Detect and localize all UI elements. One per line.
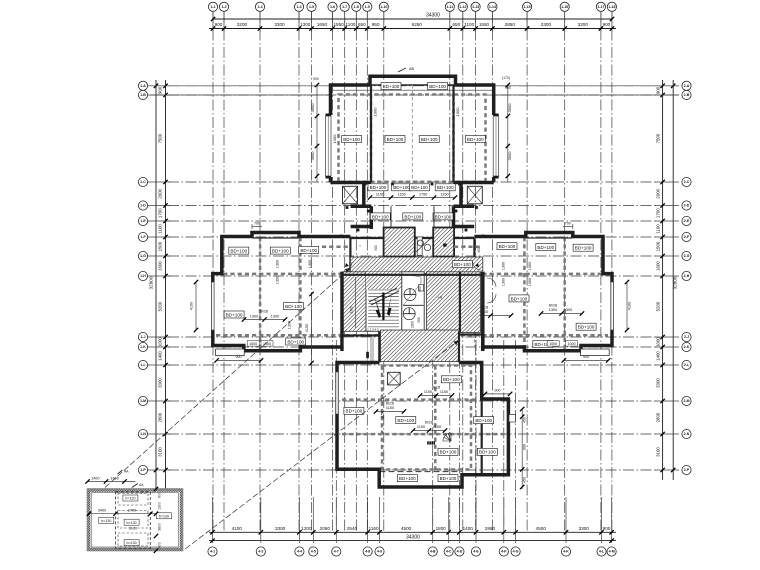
svg-text:3600: 3600	[310, 151, 315, 161]
left wing interior dims	[244, 319, 285, 321]
svg-text:1-D: 1-D	[140, 204, 146, 208]
svg-text:1-8: 1-8	[354, 5, 359, 9]
core right inner wall	[459, 272, 461, 333]
svg-text:BD+100: BD+100	[440, 450, 457, 455]
svg-text:1-13: 1-13	[472, 5, 479, 9]
inset dashed column	[116, 492, 151, 549]
svg-text:1100: 1100	[464, 22, 474, 27]
svg-text:1400: 1400	[656, 351, 661, 361]
svg-text:b=120: b=120	[125, 497, 135, 501]
svg-text:1150: 1150	[376, 193, 384, 197]
svg-text:1300: 1300	[564, 308, 572, 312]
svg-text:2-H: 2-H	[684, 274, 690, 278]
core bottom hatch band	[381, 330, 460, 362]
core mid wall	[342, 274, 483, 276]
svg-text:2800: 2800	[158, 412, 163, 422]
left dimension column	[148, 80, 171, 489]
core left internal dim	[355, 277, 357, 328]
right wing window	[611, 282, 614, 330]
svg-text:2800: 2800	[656, 412, 661, 422]
svg-text:1300: 1300	[158, 502, 162, 510]
svg-text:3600: 3600	[507, 151, 512, 161]
svg-text:1-6: 1-6	[330, 5, 335, 9]
stair well	[366, 272, 402, 332]
bottom wing right ext dims	[521, 409, 523, 489]
svg-text:2-E: 2-E	[684, 219, 690, 223]
svg-text:1150: 1150	[433, 425, 441, 429]
svg-text:3300: 3300	[579, 526, 590, 531]
right wing interior dims	[470, 315, 511, 317]
svg-text:2860: 2860	[485, 526, 496, 531]
right wing outer walls	[474, 233, 612, 351]
right dimension column	[655, 80, 679, 480]
svg-text:BhCB: BhCB	[432, 385, 440, 389]
diagonal leader A	[105, 268, 350, 488]
svg-text:2-D: 2-D	[684, 204, 690, 208]
svg-text:AB: AB	[409, 67, 415, 71]
svg-text:BhCB: BhCB	[549, 303, 557, 307]
svg-text:3600: 3600	[507, 103, 512, 113]
svg-text:900: 900	[374, 245, 378, 251]
svg-text:4-4: 4-4	[297, 550, 302, 554]
svg-text:450: 450	[523, 477, 527, 483]
svg-text:2200: 2200	[411, 321, 415, 328]
svg-text:1300: 1300	[271, 314, 279, 318]
svg-text:950: 950	[372, 22, 380, 27]
svg-text:1400: 1400	[463, 526, 474, 531]
svg-text:4-3: 4-3	[258, 550, 263, 554]
top wing balcony inner line	[370, 84, 456, 86]
svg-text:1100: 1100	[346, 22, 356, 27]
horizontal grid axes (dash-dot)	[168, 86, 658, 470]
elevator shaft left	[384, 228, 415, 257]
svg-text:1300: 1300	[502, 278, 506, 286]
core separating walls	[349, 238, 351, 272]
svg-text:1300: 1300	[455, 107, 460, 117]
svg-text:1300: 1300	[276, 276, 280, 284]
svg-text:BD+100: BD+100	[499, 244, 516, 249]
svg-text:1-F: 1-F	[140, 235, 146, 239]
svg-text:1300: 1300	[549, 308, 557, 312]
svg-text:BD+100: BD+100	[370, 185, 387, 190]
svg-text:BD+100: BD+100	[272, 249, 289, 254]
svg-text:2-F: 2-F	[684, 235, 690, 239]
svg-text:BhCB: BhCB	[260, 310, 268, 314]
svg-text:1000: 1000	[158, 337, 163, 347]
svg-text:BD+100: BD+100	[343, 137, 360, 142]
stair arrows	[374, 295, 381, 318]
svg-text:3100: 3100	[158, 447, 163, 457]
svg-text:1-5: 1-5	[309, 5, 314, 9]
svg-text:7500: 7500	[656, 133, 661, 143]
svg-text:1400: 1400	[158, 351, 163, 361]
svg-text:1150: 1150	[440, 193, 448, 197]
neck dims row	[370, 197, 455, 199]
svg-text:BD+100: BD+100	[578, 325, 595, 330]
svg-text:BD+100: BD+100	[475, 418, 492, 423]
svg-text:BD+100: BD+100	[285, 304, 302, 309]
svg-text:BD+100: BD+100	[537, 245, 554, 250]
svg-text:BD+100: BD+100	[411, 185, 428, 190]
gray dashed overlay: middle band	[216, 273, 608, 276]
svg-text:4100: 4100	[232, 526, 243, 531]
right wing labels	[497, 243, 517, 250]
svg-text:1300: 1300	[350, 306, 354, 313]
svg-text:4100: 4100	[190, 302, 194, 310]
svg-text:5200: 5200	[158, 301, 163, 311]
diagonal leader B	[185, 340, 459, 549]
svg-text:3300: 3300	[541, 22, 552, 27]
bottom dimension rows	[209, 497, 616, 543]
spiral stair	[443, 433, 451, 441]
svg-text:900: 900	[583, 355, 589, 359]
svg-text:2-G: 2-G	[684, 254, 690, 258]
top wing side dim right	[507, 85, 509, 183]
svg-text:1200: 1200	[301, 526, 312, 531]
svg-text:2540: 2540	[347, 526, 358, 531]
svg-text:32800: 32800	[149, 276, 154, 289]
inset mid dim	[89, 513, 155, 515]
svg-text:1-10: 1-10	[380, 5, 387, 9]
svg-text:4-B: 4-B	[430, 550, 436, 554]
svg-text:1550: 1550	[333, 22, 344, 27]
svg-text:24.20: 24.20	[129, 527, 137, 531]
svg-text:1550: 1550	[479, 22, 490, 27]
top wing partitions	[370, 85, 372, 183]
core bottom wall left	[342, 334, 381, 336]
svg-text:34300: 34300	[406, 535, 420, 541]
svg-text:b=130: b=130	[127, 541, 137, 545]
svg-text:4500: 4500	[401, 526, 412, 531]
top dimension rows	[209, 12, 616, 32]
svg-text:1-M: 1-M	[140, 399, 146, 403]
bottom wing outer walls	[337, 363, 508, 488]
svg-text:BD+100: BD+100	[575, 246, 592, 251]
left wing 700 flag	[251, 224, 253, 229]
svg-text:BD+100: BD+100	[393, 185, 410, 190]
svg-text:BD+100: BD+100	[230, 249, 247, 254]
svg-text:BD+100: BD+100	[429, 84, 446, 89]
right wing 700 flag	[572, 224, 574, 229]
svg-text:1000: 1000	[568, 342, 576, 346]
right wing bottom small dims	[547, 341, 559, 347]
svg-text:▪: ▪	[359, 244, 360, 248]
svg-text:3200: 3200	[578, 22, 589, 27]
svg-text:1400: 1400	[91, 476, 99, 480]
svg-text:AA: AA	[124, 470, 129, 474]
svg-text:900: 900	[215, 22, 223, 27]
svg-text:1-14: 1-14	[489, 5, 496, 9]
svg-text:1300: 1300	[528, 262, 532, 270]
svg-text:BD+100: BD+100	[435, 214, 452, 219]
svg-text:4-F: 4-F	[501, 550, 507, 554]
svg-text:1-K: 1-K	[140, 345, 146, 349]
top axis bubbles	[208, 2, 616, 11]
svg-text:(170): (170)	[502, 76, 510, 80]
svg-text:4-K: 4-K	[563, 550, 569, 554]
neck partitions	[390, 206, 392, 227]
svg-text:32800: 32800	[673, 276, 678, 289]
left wing window	[211, 282, 214, 330]
courtyard white	[344, 337, 379, 361]
svg-text:1-E: 1-E	[140, 219, 146, 223]
svg-text:2000: 2000	[656, 188, 661, 198]
svg-text:2-J: 2-J	[684, 335, 689, 339]
gray dashed overlay: bottom wing	[382, 366, 471, 470]
top wing window left	[328, 115, 333, 177]
svg-text:900: 900	[418, 286, 422, 292]
svg-text:1150: 1150	[386, 406, 394, 410]
svg-text:3300: 3300	[274, 22, 285, 27]
svg-text:1160: 1160	[369, 526, 379, 531]
roof flag AB	[398, 68, 406, 72]
bottom wing left dim	[311, 294, 313, 363]
svg-text:600: 600	[158, 492, 162, 498]
svg-text:2-A: 2-A	[684, 84, 690, 88]
svg-text:BD+100: BD+100	[437, 185, 454, 190]
svg-text:1-18: 1-18	[608, 5, 615, 9]
left wing balcony slab	[216, 349, 245, 356]
svg-text:900: 900	[417, 317, 421, 323]
AC platform left	[343, 186, 358, 204]
svg-text:b=130: b=130	[127, 521, 137, 525]
svg-text:AA: AA	[139, 483, 144, 487]
svg-text:2700: 2700	[128, 508, 136, 512]
between elevators box	[417, 237, 422, 255]
svg-text:1750: 1750	[419, 193, 427, 197]
svg-text:1000: 1000	[656, 337, 661, 347]
svg-text:5200: 5200	[656, 301, 661, 311]
svg-text:1-4: 1-4	[296, 5, 301, 9]
svg-text:BD+100: BD+100	[372, 214, 389, 219]
svg-text:1300: 1300	[373, 107, 378, 117]
svg-text:1300: 1300	[250, 314, 258, 318]
svg-text:1-J: 1-J	[140, 335, 145, 339]
svg-text:4-7: 4-7	[334, 550, 339, 554]
gray dashed overlay: top wing	[339, 95, 486, 182]
inset top dim	[88, 481, 136, 483]
svg-text:1700: 1700	[656, 208, 661, 218]
svg-text:1 2 3 4 5: 1 2 3 4 5	[367, 328, 379, 332]
svg-text:2060: 2060	[320, 526, 331, 531]
svg-text:1-H: 1-H	[140, 274, 146, 278]
svg-text:1-17: 1-17	[597, 5, 604, 9]
svg-text:4-C: 4-C	[446, 550, 452, 554]
svg-text:1600: 1600	[656, 261, 661, 271]
bottom wing extension top wall	[481, 399, 483, 475]
bottom wing side walls of hatch	[378, 331, 380, 362]
svg-text:BD+100: BD+100	[421, 137, 438, 142]
svg-text:BhCB: BhCB	[386, 401, 394, 405]
svg-text:BD+100: BD+100	[440, 476, 457, 481]
svg-text:1-N: 1-N	[140, 432, 146, 436]
core bottom wall right	[459, 333, 483, 335]
svg-text:1-L: 1-L	[140, 363, 146, 367]
top wing bottom wall	[331, 181, 494, 185]
bottom wing dim clusters	[420, 395, 452, 397]
svg-text:1400: 1400	[110, 476, 118, 480]
svg-text:600: 600	[158, 542, 162, 548]
svg-text:1800: 1800	[436, 526, 447, 531]
svg-text:2-K: 2-K	[684, 345, 690, 349]
svg-text:2000: 2000	[158, 188, 163, 198]
svg-text:1700: 1700	[158, 208, 163, 218]
svg-text:900: 900	[495, 388, 501, 392]
extension lines top wing to side dims	[494, 85, 679, 87]
bottom axis bubbles	[208, 547, 616, 556]
svg-text:3300: 3300	[158, 378, 163, 388]
between-elevator symbols	[418, 240, 424, 246]
svg-text:4500: 4500	[536, 526, 547, 531]
svg-text:900: 900	[236, 355, 242, 359]
neck labels row 2	[370, 213, 390, 220]
svg-text:4-5: 4-5	[311, 550, 316, 554]
core hatch band upper	[350, 257, 482, 274]
svg-text:1-1: 1-1	[210, 5, 215, 9]
svg-text:BD+100: BD+100	[346, 409, 363, 414]
band side door arcs	[344, 262, 352, 270]
svg-text:BD+100: BD+100	[287, 339, 304, 344]
door arcs right corridor	[487, 278, 496, 287]
svg-text:2-B: 2-B	[684, 93, 690, 97]
svg-text:1-15: 1-15	[524, 5, 531, 9]
svg-text:1-16: 1-16	[561, 5, 568, 9]
elevator shaft right	[433, 228, 454, 257]
svg-text:4-M: 4-M	[609, 550, 615, 554]
svg-text:1650: 1650	[317, 22, 328, 27]
junction clutter marks	[364, 183, 367, 186]
svg-text:1300: 1300	[308, 260, 312, 268]
svg-text:450: 450	[523, 417, 527, 423]
svg-text:BD+100: BD+100	[399, 476, 416, 481]
svg-text:6250: 6250	[412, 22, 423, 27]
inset right dim texts	[154, 487, 158, 491]
svg-text:BD+100: BD+100	[226, 312, 243, 317]
svg-text:900: 900	[505, 86, 511, 90]
svg-text:▪: ▪	[464, 244, 465, 248]
svg-text:1150: 1150	[424, 390, 432, 394]
svg-text:1300: 1300	[502, 262, 506, 270]
svg-text:1300: 1300	[276, 260, 280, 268]
band edge dashes	[322, 246, 350, 249]
svg-text:BD+100: BD+100	[454, 262, 471, 267]
svg-text:2850: 2850	[505, 22, 516, 27]
svg-text:900: 900	[158, 86, 163, 94]
svg-text:4150: 4150	[305, 324, 309, 332]
svg-text:BD+100: BD+100	[383, 84, 400, 89]
svg-text:4100: 4100	[628, 302, 632, 310]
bottom wing left window	[336, 372, 339, 414]
svg-text:1150: 1150	[440, 390, 448, 394]
svg-text:BD+100: BD+100	[387, 137, 404, 142]
left wing window dim	[195, 282, 197, 330]
svg-text:1150: 1150	[398, 193, 406, 197]
svg-text:1-A: 1-A	[140, 84, 146, 88]
vertical grid axes (dash-dot)	[213, 12, 612, 531]
top wing outer walls	[331, 76, 494, 182]
svg-text:900: 900	[656, 86, 661, 94]
left wing outer walls	[213, 233, 351, 351]
left wing labels	[229, 247, 249, 254]
svg-text:1100: 1100	[656, 224, 661, 234]
neck right walls	[454, 183, 475, 230]
right wing balcony slab	[581, 349, 610, 356]
svg-text:3300: 3300	[275, 526, 286, 531]
svg-text:4-G: 4-G	[513, 550, 519, 554]
svg-text:3100: 3100	[656, 447, 661, 457]
right wing window dim	[626, 282, 628, 330]
svg-text:4-D: 4-D	[457, 550, 463, 554]
top wing window right	[491, 115, 496, 177]
svg-text:BD+100: BD+100	[443, 377, 460, 382]
bottom wing labels	[441, 376, 461, 383]
svg-text:650: 650	[452, 22, 460, 27]
svg-text:2-M: 2-M	[683, 399, 689, 403]
core left hatch block	[342, 272, 366, 332]
svg-text:700: 700	[565, 222, 571, 226]
bottom wing AC box	[388, 372, 401, 385]
svg-text:2-C: 2-C	[684, 180, 690, 184]
svg-text:1-2: 1-2	[221, 5, 226, 9]
svg-text:BD+100: BD+100	[479, 450, 496, 455]
svg-text:BD+100: BD+100	[511, 296, 528, 301]
svg-text:1-9: 1-9	[365, 5, 370, 9]
svg-text:4-E: 4-E	[473, 550, 479, 554]
svg-text:BD+100: BD+100	[300, 248, 317, 253]
right axis bubbles	[682, 81, 691, 474]
svg-text:600: 600	[523, 444, 527, 450]
svg-text:1000: 1000	[249, 342, 257, 346]
svg-text:1-7: 1-7	[342, 5, 347, 9]
svg-text:34300: 34300	[426, 13, 440, 19]
svg-text:1300: 1300	[528, 278, 532, 286]
top wing labels	[381, 83, 401, 90]
toilet room	[402, 272, 424, 332]
svg-text:1300: 1300	[300, 22, 311, 27]
svg-text:2-P: 2-P	[684, 468, 690, 472]
svg-text:900: 900	[603, 526, 611, 531]
neck left walls	[351, 183, 372, 230]
svg-text:b=130: b=130	[101, 519, 111, 523]
svg-text:1600: 1600	[158, 261, 163, 271]
svg-text:3400: 3400	[98, 508, 106, 512]
AC platform right	[467, 186, 482, 204]
inset flags	[118, 470, 123, 474]
svg-text:900: 900	[603, 22, 611, 27]
svg-text:b=130: b=130	[159, 514, 169, 518]
svg-text:4-L: 4-L	[599, 550, 605, 554]
svg-text:650: 650	[358, 22, 366, 27]
svg-text:▮▮▮▮: ▮▮▮▮	[427, 441, 435, 445]
svg-text:1-C: 1-C	[140, 180, 146, 184]
svg-text:1-P: 1-P	[140, 468, 146, 472]
svg-text:1-B: 1-B	[140, 93, 146, 97]
svg-text:4-9: 4-9	[377, 550, 382, 554]
neck labels row 1	[368, 184, 388, 191]
inset detail outer wall	[89, 490, 182, 550]
svg-text:2-N: 2-N	[684, 432, 690, 436]
svg-text:1-3: 1-3	[257, 5, 262, 9]
svg-text:1100: 1100	[158, 224, 163, 234]
svg-text:3800: 3800	[158, 523, 162, 531]
svg-text:≈≋: ≈≋	[438, 296, 443, 300]
svg-text:4-8: 4-8	[365, 550, 370, 554]
core right hatch block	[427, 272, 481, 333]
svg-text:3300: 3300	[656, 378, 661, 388]
svg-text:BD+100: BD+100	[397, 418, 414, 423]
svg-text:1150: 1150	[417, 425, 425, 429]
svg-text:1000: 1000	[549, 342, 557, 346]
